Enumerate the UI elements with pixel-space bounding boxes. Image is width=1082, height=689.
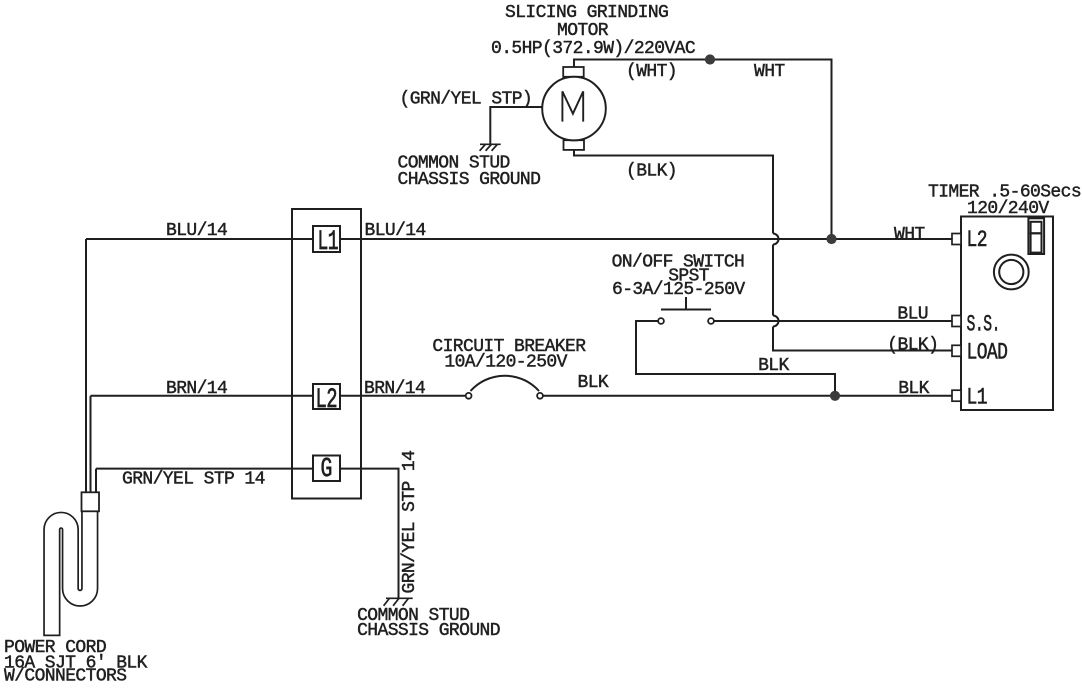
circuit breaker CB1 10A/120-250V [471,376,540,391]
on/off switch SPST actuator [661,297,711,310]
svg-text:BLU/14: BLU/14 [166,221,227,241]
svg-text:0.5HP(372.9W)/220VAC: 0.5HP(372.9W)/220VAC [491,39,696,59]
wire: switch left terminal branch down to BLK rail [636,321,835,396]
wire: motor top terminal to WHT rail corner [574,60,832,240]
svg-text:BLK: BLK [898,379,929,399]
svg-text:L1: L1 [967,386,988,411]
wire: motor bottom terminal BLK run down to timer LOAD level [574,150,773,234]
wire: BRN vertical drop to power cord [90,396,92,494]
wire: GRN/YEL vertical drop to power cord [95,469,97,494]
on/off switch contacts [658,318,714,324]
svg-text:SLICING GRINDING: SLICING GRINDING [505,3,668,23]
svg-text:L2: L2 [967,228,987,253]
wire hop over switch wire at (773,321) [773,316,779,327]
wire: GRN/YEL STP ground run [96,469,399,599]
timer terminal L2 [952,234,961,245]
wire: main BLU/WHT rail (power cord to timer L2) [86,238,952,240]
timer terminal S.S. [952,316,961,327]
wire hop over WHT rail at (773,239) [773,234,779,245]
chassis ground symbol (terminal block G) [384,598,413,606]
timer terminal LOAD [952,345,961,356]
motor M letter [562,91,583,121]
svg-text:WHT: WHT [754,62,785,82]
svg-text:MOTOR: MOTOR [557,21,609,41]
svg-text:BLK: BLK [758,356,789,376]
svg-text:(BLK): (BLK) [626,162,677,182]
junction dot BLK rail / switch branch [830,391,840,401]
motor M1 body [542,77,606,141]
svg-text:BRN/14: BRN/14 [364,379,425,399]
power cord coil outline [52,508,90,636]
timer dial outer [994,255,1029,290]
svg-text:BLK: BLK [578,373,609,393]
svg-text:G: G [321,454,332,485]
svg-text:(WHT): (WHT) [626,62,677,82]
svg-text:LOAD: LOAD [967,341,1008,366]
timer indicator bottom square [1031,233,1042,252]
svg-text:BLU/14: BLU/14 [365,221,426,241]
svg-text:6-3A/125-250V: 6-3A/125-250V [612,280,745,300]
terminal L1 square [313,226,340,252]
power cord sleeve [82,492,100,511]
junction dot on WHT wire near motor [705,54,715,64]
svg-text:BLU: BLU [897,305,928,325]
wire: switch right terminal to timer S.S. [714,320,952,322]
svg-text:(GRN/YEL STP): (GRN/YEL STP) [400,90,533,110]
svg-text:GRN/YEL STP 14: GRN/YEL STP 14 [400,451,420,594]
motor M1 bottom terminal [564,140,585,150]
chassis ground symbol (motor) [480,144,501,151]
svg-text:L1: L1 [318,226,338,257]
svg-text:GRN/YEL STP 14: GRN/YEL STP 14 [122,470,265,490]
svg-text:CHASSIS GROUND: CHASSIS GROUND [357,621,500,641]
wire: BLK vertical between hops [772,245,774,316]
svg-text:S.S.: S.S. [967,312,1000,338]
svg-text:L2: L2 [316,385,337,416]
timer body [961,217,1053,411]
timer terminal L1 [952,390,961,401]
timer indicator top square [1031,222,1042,234]
wire: BRN/14 left segment to circuit breaker [91,395,466,397]
wire: BLK segment breaker to timer L1 [543,395,952,397]
svg-text:120/240V: 120/240V [967,199,1049,219]
svg-text:W/CONNECTORS: W/CONNECTORS [4,667,126,684]
svg-text:BRN/14: BRN/14 [166,379,227,399]
wire: motor case to chassis ground [490,107,542,144]
wire: BLU vertical drop to power cord [85,239,87,494]
timer dial inner [999,260,1023,284]
svg-text:WHT: WHT [894,225,925,245]
junction dot WHT rail / motor drop [826,234,836,244]
terminal block body [292,209,361,499]
svg-text:(BLK): (BLK) [887,336,938,356]
svg-text:10A/120-250V: 10A/120-250V [444,352,567,372]
wire: BLK vertical to LOAD corner then to timer LOAD [773,327,952,351]
motor M1 top terminal [563,67,584,77]
terminal L2 square [313,384,340,409]
timer indicator window [1028,218,1044,254]
svg-text:CHASSIS GROUND: CHASSIS GROUND [398,170,541,190]
terminal G square [313,456,340,482]
